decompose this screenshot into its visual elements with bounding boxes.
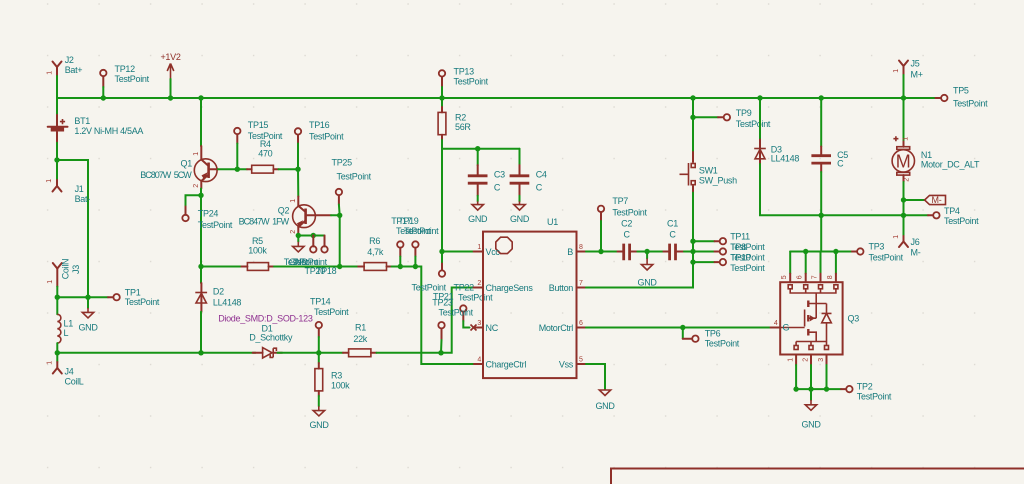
svg-text:SW_Push: SW_Push xyxy=(699,175,737,185)
svg-text:SW1: SW1 xyxy=(699,165,718,175)
wire base junction down to R5/R6 wire xyxy=(339,215,341,266)
junction xyxy=(198,193,203,198)
svg-text:TP4: TP4 xyxy=(944,206,960,216)
svg-text:1: 1 xyxy=(903,137,910,141)
capacitor C1 xyxy=(663,219,684,261)
U1 pin 1 Vcc xyxy=(474,244,501,257)
testpoint TP4 xyxy=(904,206,980,226)
svg-text:Motor_DC_ALT: Motor_DC_ALT xyxy=(921,160,980,170)
svg-text:TestPoint: TestPoint xyxy=(857,392,892,402)
svg-text:1: 1 xyxy=(290,199,297,203)
wire R1 to TP21 junction and up to pin2 xyxy=(377,288,474,353)
junction xyxy=(316,350,321,355)
junction xyxy=(803,249,808,254)
capacitor C2 xyxy=(618,219,638,261)
resistor R5 100k xyxy=(242,236,275,270)
wire Q1 emitter down xyxy=(200,189,202,267)
testpoint TP2 xyxy=(841,381,892,401)
wire rail to battery xyxy=(56,98,58,113)
svg-text:J6: J6 xyxy=(911,237,920,247)
svg-text:1: 1 xyxy=(46,179,53,183)
junction xyxy=(690,259,695,264)
junction xyxy=(690,239,695,244)
svg-text:C3: C3 xyxy=(494,169,505,179)
capacitor C4 xyxy=(510,149,547,196)
wire bottom row left xyxy=(57,352,255,354)
transistor Q1 BC807W PNP xyxy=(140,146,218,189)
testpoint TP17 xyxy=(391,216,431,267)
resistor R2 56R xyxy=(438,98,471,140)
ground GND bottom-left xyxy=(78,297,98,332)
svg-text:J4: J4 xyxy=(65,366,74,376)
testpoint TP8 xyxy=(693,242,765,262)
svg-text:TestPoint: TestPoint xyxy=(115,74,150,84)
U1 pin 4 ChargeCtrl xyxy=(474,357,526,370)
ground below C2/C1 xyxy=(638,252,658,288)
wire TP25 to base junction xyxy=(338,205,341,216)
svg-text:TP24: TP24 xyxy=(198,208,219,218)
wires Q3 top pins xyxy=(789,252,791,274)
svg-text:TP7: TP7 xyxy=(612,196,628,206)
testpoint TP11 xyxy=(693,231,765,252)
svg-text:MotorCtrl: MotorCtrl xyxy=(539,323,574,333)
svg-text:BC847W 1FW: BC847W 1FW xyxy=(239,216,290,226)
svg-text:1: 1 xyxy=(47,71,54,75)
diode D2 LL4148 xyxy=(195,267,241,312)
wire C2 to C1 xyxy=(637,251,663,253)
wire J3 down to GND row xyxy=(56,287,58,298)
junction xyxy=(680,325,685,330)
wire Button net down and to pin7 xyxy=(586,252,693,288)
junction xyxy=(598,249,603,254)
svg-text:TP13: TP13 xyxy=(454,67,475,77)
svg-text:TestPoint: TestPoint xyxy=(730,263,765,273)
junction xyxy=(644,249,649,254)
svg-text:TP16: TP16 xyxy=(309,120,330,130)
junction xyxy=(438,350,443,355)
svg-text:L1: L1 xyxy=(64,319,74,329)
overlapping labels GND TP20 TP18 TestPoint xyxy=(284,257,337,276)
svg-text:1.2V Ni-MH 4/5AA: 1.2V Ni-MH 4/5AA xyxy=(74,126,143,136)
svg-text:6: 6 xyxy=(797,275,804,279)
svg-text:TP6: TP6 xyxy=(705,328,721,338)
svg-text:D2: D2 xyxy=(213,287,224,297)
svg-text:TestPoint: TestPoint xyxy=(125,297,160,307)
junction xyxy=(439,249,444,254)
svg-text:1: 1 xyxy=(893,69,900,73)
junction xyxy=(824,386,829,391)
svg-text:GND: GND xyxy=(801,420,821,430)
junction xyxy=(101,95,106,100)
svg-text:1: 1 xyxy=(893,235,900,239)
junction xyxy=(690,249,695,254)
junction xyxy=(439,95,444,100)
svg-text:Bat-: Bat- xyxy=(75,194,91,204)
overlapping labels TP21 TP22 TP23 TestPoint cluster xyxy=(412,282,494,317)
wire rail down to SW1 xyxy=(692,98,694,152)
capacitor C3 xyxy=(468,149,505,196)
svg-text:TP25: TP25 xyxy=(332,158,353,168)
connector J3 CoilN xyxy=(47,259,81,287)
svg-text:GND: GND xyxy=(468,214,488,224)
testpoint TP13 xyxy=(439,67,489,99)
ground below C4 xyxy=(510,196,530,224)
U1 pin 2 ChargeSens xyxy=(474,280,534,293)
svg-text:GND: GND xyxy=(78,322,98,332)
transistor Q3 MOSFET package xyxy=(771,274,860,365)
testpoint TP3 xyxy=(848,242,904,263)
junction xyxy=(833,249,838,254)
svg-text:TP23: TP23 xyxy=(432,298,453,308)
wire MotorCtrl pin6 to Q3 gate xyxy=(586,327,771,329)
svg-text:D_Schottky: D_Schottky xyxy=(249,333,293,343)
junction xyxy=(793,386,798,391)
testpoint TP12 xyxy=(100,64,150,87)
U1 pin 7 Button xyxy=(549,280,586,293)
svg-text:TestPoint: TestPoint xyxy=(705,339,740,349)
svg-text:R5: R5 xyxy=(252,236,263,246)
svg-text:100k: 100k xyxy=(248,246,267,256)
svg-text:3: 3 xyxy=(818,358,825,362)
svg-text:5: 5 xyxy=(781,275,788,279)
wires Q3 bottom pins to GND row xyxy=(795,365,797,389)
svg-text:R4: R4 xyxy=(260,139,271,149)
svg-text:7: 7 xyxy=(812,275,819,279)
connector J2 Bat+ xyxy=(47,55,83,76)
junction xyxy=(819,95,824,100)
testpoint TP15 xyxy=(234,120,283,144)
testpoint TP6 xyxy=(683,328,740,349)
junction xyxy=(901,95,906,100)
svg-text:LL4148: LL4148 xyxy=(213,297,242,307)
svg-text:100k: 100k xyxy=(331,380,350,390)
svg-text:22k: 22k xyxy=(353,334,367,344)
resistor R4 470 xyxy=(247,139,279,173)
wire Q1 base to R4 xyxy=(218,168,247,170)
testpoint TP16 xyxy=(295,120,344,144)
resistor R1 22k xyxy=(343,323,377,357)
svg-text:TestPoint: TestPoint xyxy=(944,216,979,226)
svg-text:L: L xyxy=(64,328,69,338)
resistor R3 100k xyxy=(315,353,350,396)
ground below Vss xyxy=(595,389,615,411)
svg-text:C: C xyxy=(669,230,676,240)
svg-text:TestPoint: TestPoint xyxy=(314,307,349,317)
testpoint TP24 xyxy=(182,207,233,231)
wire R2 to C3/C4 branch xyxy=(442,140,520,149)
junction xyxy=(337,213,342,218)
junction xyxy=(295,167,300,172)
junction xyxy=(235,167,240,172)
svg-text:Vcc: Vcc xyxy=(486,247,501,257)
motor N1 Motor_DC_ALT xyxy=(892,98,980,182)
wire D2 to bottom row xyxy=(200,312,202,353)
wire D3 to M- row xyxy=(760,164,904,215)
svg-text:Q2: Q2 xyxy=(278,205,290,215)
junction xyxy=(475,146,480,151)
capacitor C5 xyxy=(811,98,848,172)
wire branch to GND net xyxy=(57,160,88,297)
wire R5 R6 row xyxy=(201,266,242,268)
testpoint TP7 xyxy=(598,196,648,252)
junction xyxy=(55,295,60,300)
testpoint TP22 xyxy=(439,252,445,277)
svg-text:TestPoint: TestPoint xyxy=(736,119,771,129)
svg-text:Q3: Q3 xyxy=(848,313,860,323)
junction xyxy=(54,157,59,162)
junction xyxy=(819,213,824,218)
wire R6 to corner, down to U1 pin4 xyxy=(392,267,475,365)
svg-text:TP9: TP9 xyxy=(736,108,752,118)
inductor L1 xyxy=(57,297,73,343)
svg-text:R1: R1 xyxy=(355,323,366,333)
U1 pin 5 Vss xyxy=(559,357,586,370)
wire TP15 to base wire xyxy=(236,144,238,170)
svg-text:J1: J1 xyxy=(75,184,84,194)
svg-text:ChargeSens: ChargeSens xyxy=(486,283,534,293)
junction xyxy=(311,233,316,238)
wire J5 to rail xyxy=(903,75,905,98)
svg-text:TP10: TP10 xyxy=(730,252,751,262)
junction xyxy=(85,295,90,300)
wire Q2 base to TP25 junction xyxy=(331,214,340,216)
svg-text:1: 1 xyxy=(46,361,53,365)
svg-text:M-: M- xyxy=(911,247,921,257)
svg-text:2: 2 xyxy=(477,280,481,287)
svg-text:TestPoint: TestPoint xyxy=(454,77,489,87)
svg-text:7: 7 xyxy=(579,280,583,287)
ground below C3 xyxy=(468,196,488,224)
global label M- xyxy=(904,195,946,205)
U1 pin 3 NC xyxy=(474,320,499,333)
junction xyxy=(398,264,403,269)
svg-text:3: 3 xyxy=(477,320,481,327)
svg-text:6: 6 xyxy=(579,320,583,327)
svg-text:2: 2 xyxy=(904,178,911,182)
wire Q3 drain top row xyxy=(790,251,848,253)
connector J6 M- xyxy=(893,215,921,257)
svg-text:N1: N1 xyxy=(921,150,932,160)
ground below Q2 xyxy=(293,236,304,252)
wire main +1V2 rail xyxy=(57,97,904,99)
svg-text:J2: J2 xyxy=(65,55,74,65)
svg-text:TP1: TP1 xyxy=(125,287,141,297)
svg-text:R6: R6 xyxy=(369,236,380,246)
junction xyxy=(413,264,418,269)
svg-text:C2: C2 xyxy=(621,219,632,229)
svg-text:8: 8 xyxy=(579,244,583,251)
svg-text:2: 2 xyxy=(193,184,200,188)
testpoint TP23 xyxy=(460,305,476,330)
svg-text:+1V2: +1V2 xyxy=(160,52,180,62)
wire to TP24 xyxy=(186,195,202,206)
wire GND row xyxy=(57,296,108,298)
title block frame corner xyxy=(611,469,1024,484)
svg-text:Q1: Q1 xyxy=(181,158,193,168)
svg-text:LL4148: LL4148 xyxy=(771,153,800,163)
svg-text:TP18: TP18 xyxy=(316,266,337,276)
testpoint TP10 xyxy=(693,252,765,273)
testpoint TP21 xyxy=(438,322,444,353)
wire motor to M- row xyxy=(903,182,905,215)
transistor Q2 BC847W NPN xyxy=(239,197,331,235)
svg-text:4: 4 xyxy=(477,357,481,364)
svg-text:TestPoint: TestPoint xyxy=(458,292,493,302)
testpoint TP25 xyxy=(332,158,372,205)
svg-text:ChargeCtrl: ChargeCtrl xyxy=(486,360,527,370)
svg-text:C4: C4 xyxy=(536,169,547,179)
ground below Q3 xyxy=(801,389,821,429)
svg-text:J5: J5 xyxy=(911,59,920,69)
svg-text:R2: R2 xyxy=(455,113,466,123)
svg-text:TP8: TP8 xyxy=(730,242,746,252)
svg-text:C1: C1 xyxy=(667,219,678,229)
svg-text:G: G xyxy=(783,323,790,333)
svg-text:U1: U1 xyxy=(547,217,558,227)
power symbol +1V2 xyxy=(160,52,180,79)
junction xyxy=(690,95,695,100)
svg-text:TestPoint: TestPoint xyxy=(612,208,647,218)
wire L1 to bottom row xyxy=(56,343,58,353)
wire Vss to GND xyxy=(586,364,605,389)
wire +1V2 to rail xyxy=(170,79,172,98)
svg-text:1: 1 xyxy=(788,358,795,362)
svg-text:TP5: TP5 xyxy=(953,86,969,96)
wire battery to J1/branch xyxy=(56,143,58,180)
svg-text:CoilN: CoilN xyxy=(61,259,71,280)
diode D3 LL4148 xyxy=(754,98,799,164)
svg-text:TestPoint: TestPoint xyxy=(309,132,344,142)
wire Q3 source row xyxy=(796,388,841,390)
svg-text:B: B xyxy=(567,247,573,257)
svg-text:C: C xyxy=(837,158,844,168)
svg-text:1: 1 xyxy=(47,280,54,284)
junction xyxy=(168,95,173,100)
junction xyxy=(901,197,906,202)
svg-text:GND: GND xyxy=(638,277,658,287)
svg-text:8: 8 xyxy=(827,275,834,279)
svg-text:GND: GND xyxy=(510,214,530,224)
testpoint TP1 xyxy=(108,287,160,307)
wire pin8 B to C2 xyxy=(586,251,618,253)
svg-text:1: 1 xyxy=(193,152,200,156)
svg-text:TestPoint: TestPoint xyxy=(953,99,988,109)
svg-text:Bat+: Bat+ xyxy=(65,65,83,75)
testpoint pad TP18 xyxy=(321,236,327,253)
wire TP12 to rail xyxy=(102,87,104,98)
svg-text:Diode_SMD:D_SOD-123: Diode_SMD:D_SOD-123 xyxy=(218,313,313,323)
junction xyxy=(901,213,906,218)
svg-text:TP2: TP2 xyxy=(857,381,873,391)
switch SW1 SW_Push xyxy=(680,152,738,193)
op-amp U1 IC box xyxy=(483,217,577,378)
ground below R3 xyxy=(309,396,329,430)
svg-text:GND: GND xyxy=(595,401,615,411)
junction xyxy=(55,350,60,355)
U1 pin 6 MotorCtrl xyxy=(539,320,586,333)
testpoint TP19 xyxy=(398,216,439,267)
svg-text:TP11: TP11 xyxy=(730,231,750,241)
svg-text:TestPoint: TestPoint xyxy=(439,308,474,318)
resistor R6 4,7k xyxy=(358,236,391,270)
svg-text:TestPoint: TestPoint xyxy=(404,226,439,236)
junction xyxy=(198,95,203,100)
wire R4 to TP16/Q2 xyxy=(279,168,299,170)
battery BT1 xyxy=(48,113,144,142)
connector J4 CoilL xyxy=(46,353,84,387)
svg-text:TP14: TP14 xyxy=(310,297,331,307)
svg-text:TP15: TP15 xyxy=(248,120,269,130)
svg-text:5: 5 xyxy=(579,357,583,364)
testpoint TP14 xyxy=(310,297,349,353)
svg-text:C: C xyxy=(623,230,630,240)
junction xyxy=(198,350,203,355)
svg-text:TP3: TP3 xyxy=(869,242,885,252)
wire Q2 emitter row xyxy=(298,234,324,237)
wire J2 to rail xyxy=(56,76,58,98)
diode D1 D_Schottky xyxy=(249,324,293,358)
svg-text:TP22: TP22 xyxy=(454,282,475,292)
testpoint pad TP20 xyxy=(310,236,316,253)
junction xyxy=(690,115,695,120)
svg-text:2: 2 xyxy=(290,230,297,234)
wire SW1 down to C1 node xyxy=(692,193,694,252)
svg-text:1: 1 xyxy=(477,244,481,251)
wire R2 node down to Vcc pin1 xyxy=(442,149,474,252)
svg-text:R3: R3 xyxy=(331,370,342,380)
svg-text:C: C xyxy=(494,182,501,192)
connector J1 Bat- xyxy=(46,179,90,204)
wire rail to Q1 collector xyxy=(200,98,202,146)
junction xyxy=(337,264,342,269)
svg-text:4: 4 xyxy=(774,320,778,327)
svg-text:TP12: TP12 xyxy=(115,64,136,74)
svg-text:TestPoint: TestPoint xyxy=(337,172,372,182)
U1 pin 8 B xyxy=(567,244,586,257)
svg-text:Button: Button xyxy=(549,283,574,293)
junction xyxy=(808,386,813,391)
junction xyxy=(198,264,203,269)
testpoint TP5 xyxy=(904,86,989,109)
svg-text:NC: NC xyxy=(486,323,499,333)
wire TP16/R4 down to Q2 collector xyxy=(297,144,299,197)
svg-text:C: C xyxy=(536,182,543,192)
svg-text:BC807W 5CW: BC807W 5CW xyxy=(140,170,192,180)
wire R5 to R6 xyxy=(274,266,358,268)
svg-text:470: 470 xyxy=(258,149,272,159)
svg-text:TestPoint: TestPoint xyxy=(869,253,904,263)
wire C1 to node xyxy=(684,251,693,253)
svg-text:J3: J3 xyxy=(71,265,81,274)
svg-text:GND: GND xyxy=(309,420,329,430)
wire D1 to R1 xyxy=(278,352,344,354)
svg-text:Vss: Vss xyxy=(559,360,574,370)
svg-text:TP19: TP19 xyxy=(398,216,419,226)
testpoint TP9 xyxy=(693,108,771,129)
svg-text:BT1: BT1 xyxy=(74,116,90,126)
svg-text:4,7k: 4,7k xyxy=(367,247,384,257)
svg-text:M: M xyxy=(896,151,911,171)
svg-text:M-: M- xyxy=(932,195,942,205)
wire C5 to M- row and down to Q3 xyxy=(820,172,822,252)
junction xyxy=(296,233,301,238)
svg-text:M+: M+ xyxy=(911,70,923,80)
svg-text:2: 2 xyxy=(803,358,810,362)
junction xyxy=(757,95,762,100)
connector J5 M+ xyxy=(893,59,923,80)
svg-text:CoilL: CoilL xyxy=(65,376,84,386)
svg-text:56R: 56R xyxy=(455,122,471,132)
